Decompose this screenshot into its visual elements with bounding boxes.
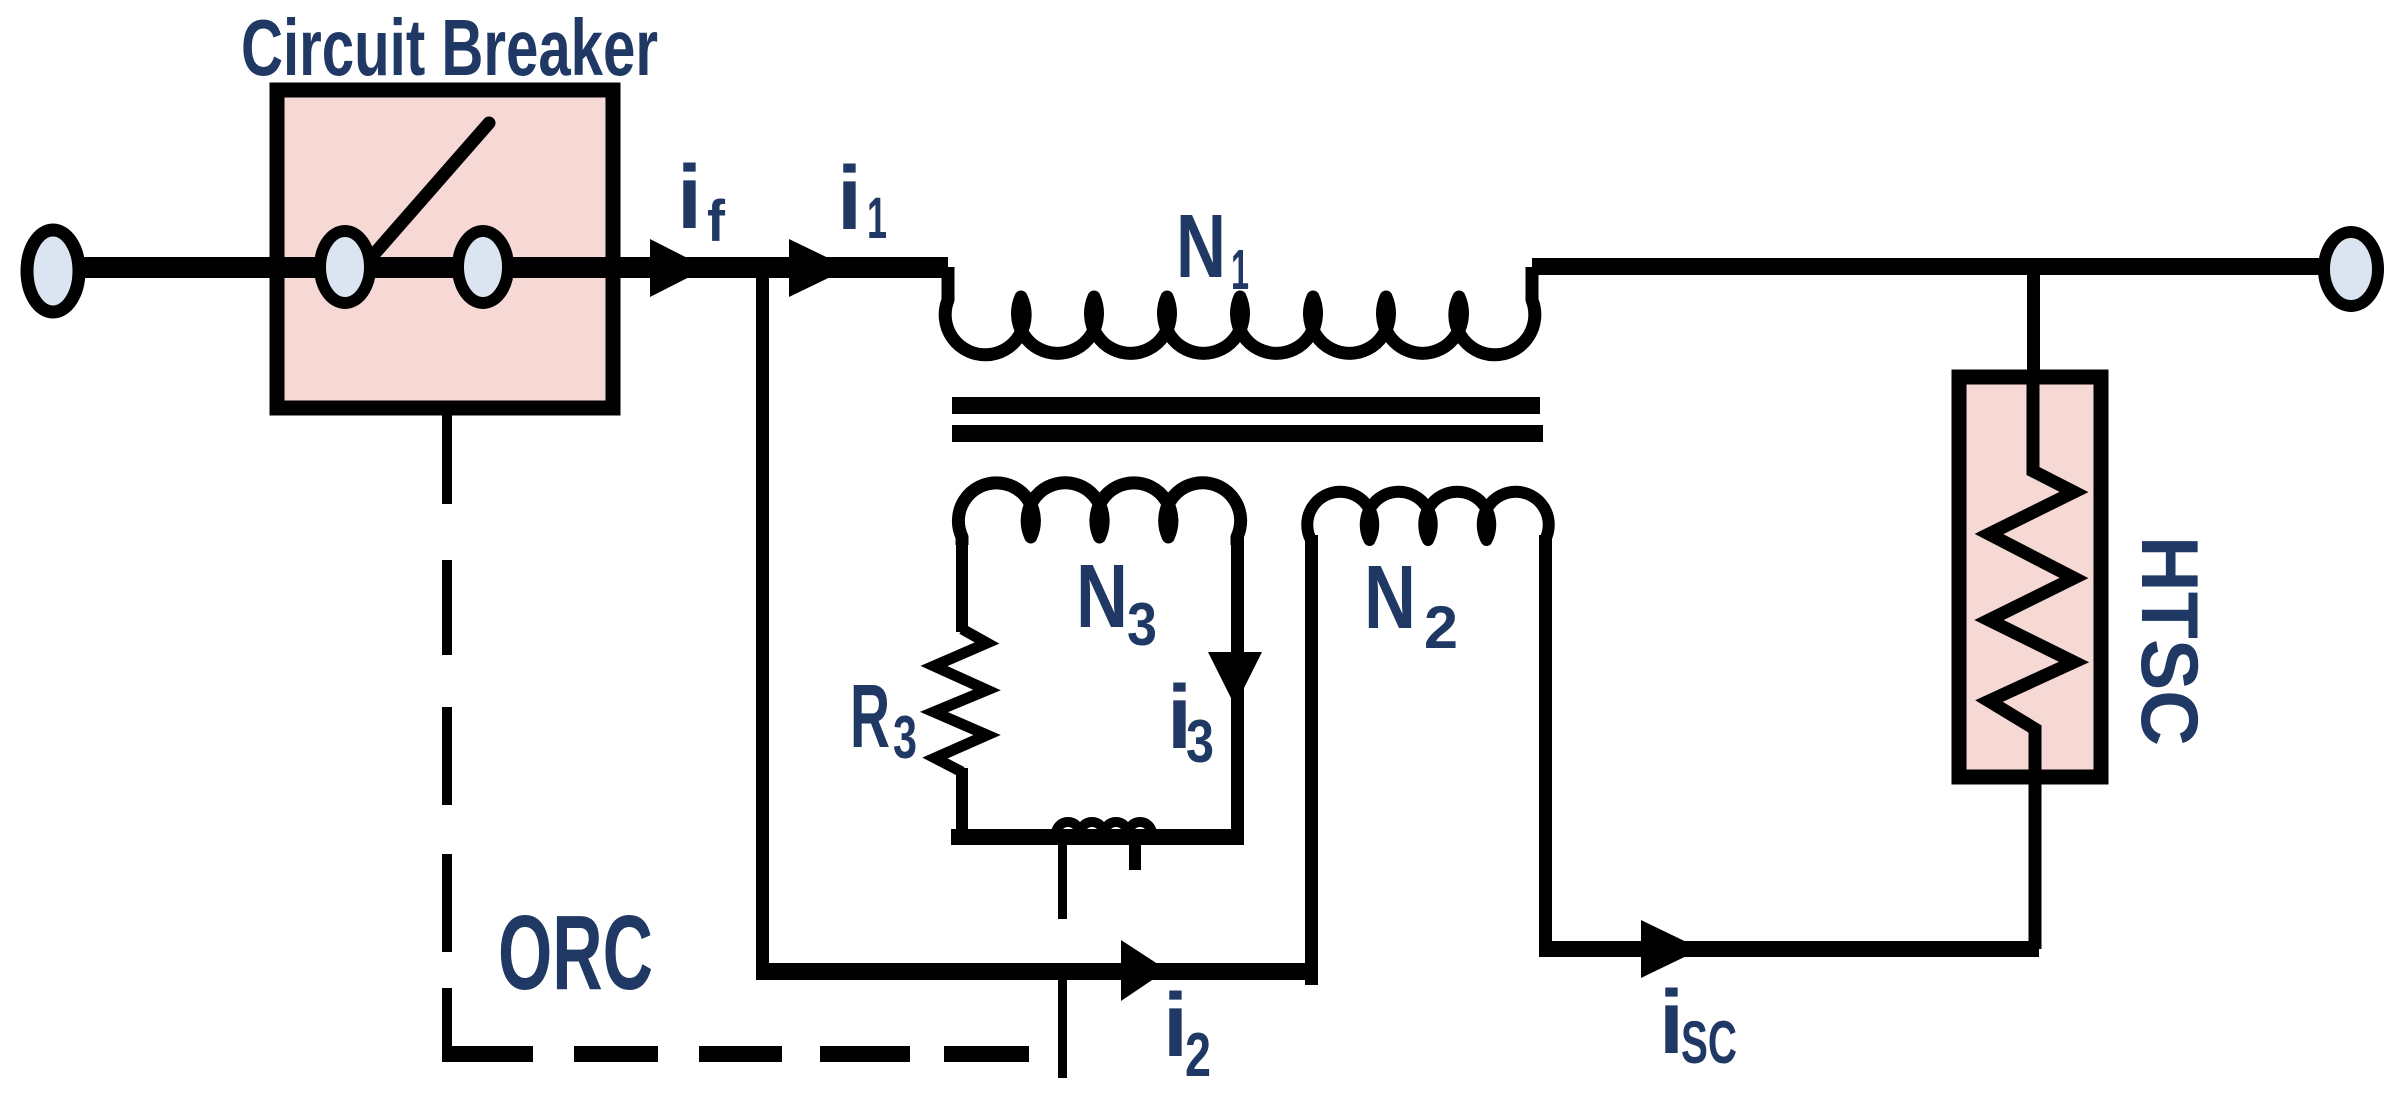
arrow if xyxy=(650,239,707,297)
svg-text:SC: SC xyxy=(1681,1009,1737,1076)
wire N2 right leg xyxy=(1539,535,1552,949)
terminal right xyxy=(2324,232,2378,306)
wire stub below inductor xyxy=(1129,845,1141,870)
svg-text:N: N xyxy=(1176,197,1226,297)
resistor HTSC zigzag xyxy=(1989,377,2074,949)
arrow i1 xyxy=(789,239,849,297)
svg-text:3: 3 xyxy=(893,704,917,771)
transformer core line 2 xyxy=(952,425,1543,442)
wire isc horizontal xyxy=(1539,941,2039,957)
wire N3 bottom xyxy=(951,829,1243,845)
svg-text:2: 2 xyxy=(1185,1021,1211,1090)
circuit breaker CB box xyxy=(277,90,613,408)
wire main top-left xyxy=(60,257,948,278)
arrow i2 xyxy=(1121,940,1167,1001)
inductor N1 primary winding xyxy=(945,267,1535,355)
inductor N2 secondary winding xyxy=(1307,492,1549,545)
switch contact right xyxy=(458,231,508,303)
svg-text:1: 1 xyxy=(867,186,887,251)
svg-text:3: 3 xyxy=(1186,708,1214,775)
inductor N3 tertiary winding xyxy=(958,483,1240,545)
HTSC box xyxy=(1959,377,2101,777)
terminal left xyxy=(27,230,79,312)
arrow isc xyxy=(1641,920,1701,978)
inductor L bottom small xyxy=(1056,822,1152,834)
svg-text:Circuit Breaker: Circuit Breaker xyxy=(241,3,658,92)
resistor R3 zigzag xyxy=(934,629,987,772)
svg-text:3: 3 xyxy=(1127,591,1157,658)
svg-text:N: N xyxy=(1364,548,1416,648)
svg-text:R: R xyxy=(850,667,890,767)
svg-text:1: 1 xyxy=(1231,238,1249,302)
wire tap upper xyxy=(1058,845,1067,919)
wire branch vertical to i2 xyxy=(756,267,769,980)
transformer core line 1 xyxy=(952,397,1540,414)
wire tap lower xyxy=(1058,980,1067,1078)
svg-text:i: i xyxy=(677,148,702,248)
svg-text:ORC: ORC xyxy=(498,894,653,1012)
wire i2 horizontal xyxy=(756,963,1312,980)
wire N3 right leg xyxy=(1231,535,1244,845)
switch contact left xyxy=(320,231,370,303)
dashed ORC vertical xyxy=(442,409,452,1062)
wire HTSC top xyxy=(2027,267,2040,370)
arrow i3 xyxy=(1208,652,1262,706)
svg-text:N: N xyxy=(1076,547,1128,647)
svg-text:HTSC: HTSC xyxy=(2124,536,2214,746)
svg-text:f: f xyxy=(707,189,726,254)
wire N3 left leg upper xyxy=(956,535,968,632)
wire N2 left leg xyxy=(1305,535,1318,985)
switch blade xyxy=(376,123,489,252)
svg-text:2: 2 xyxy=(1424,594,1458,661)
svg-text:i: i xyxy=(837,149,862,249)
wire N3 left leg lower xyxy=(956,768,968,845)
wire top-right xyxy=(1532,258,2332,275)
dashed ORC horizontal xyxy=(442,1046,1029,1062)
